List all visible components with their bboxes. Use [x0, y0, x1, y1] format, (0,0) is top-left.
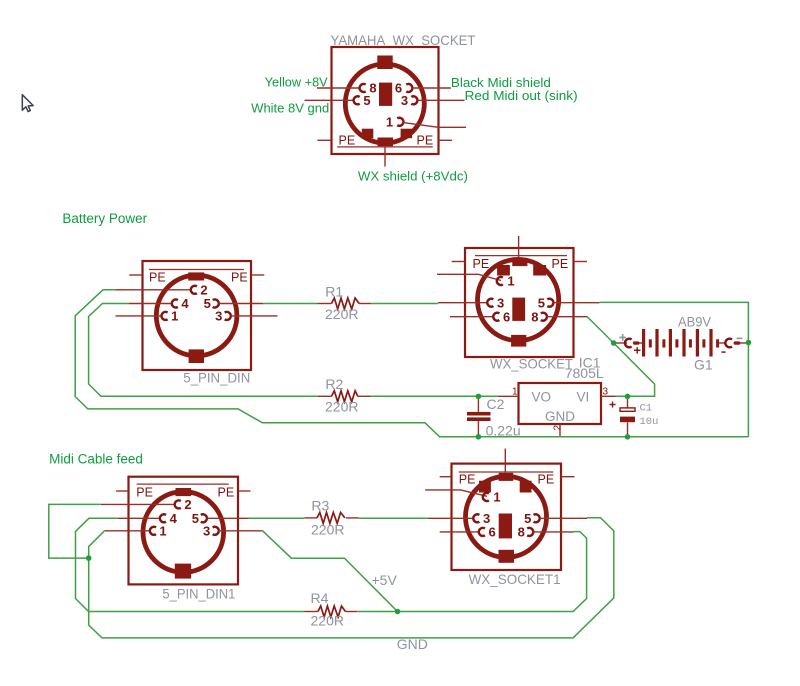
WX_SOCKET PE underline	[475, 255, 567, 257]
5_PIN_DIN pin 4 lead	[129, 303, 172, 305]
5_PIN_DIN1 pin 5 lead	[207, 517, 249, 519]
svg-text:PE: PE	[218, 486, 235, 500]
capacitor C1 top plate (outline)	[620, 408, 635, 411]
svg-text:Red Midi out (sink): Red Midi out (sink)	[465, 89, 578, 103]
WX_SOCKET pin 3 lead	[438, 302, 487, 304]
5_PIN_DIN pin 5 cup	[213, 299, 219, 307]
WX_SOCKET1 pin 5 lead	[540, 517, 588, 519]
WX_SOCKET right notch	[533, 265, 546, 276]
svg-text:GND: GND	[545, 409, 575, 424]
5_PIN_DIN1 pin 1 cup	[150, 527, 156, 535]
junction dot C1 bottom	[625, 434, 631, 440]
capacitor C2 plates	[467, 412, 491, 416]
5_PIN_DIN1 pin 1 lead	[105, 530, 150, 532]
battery G1 right pin bar	[734, 341, 741, 344]
WX_SOCKET1 pin 8 lead	[533, 531, 573, 533]
svg-text:+5V: +5V	[372, 572, 398, 588]
svg-text:220R: 220R	[325, 306, 358, 322]
junction dot DIN1 shield	[86, 555, 92, 561]
wire: DIN pin4 to R2	[89, 304, 318, 397]
svg-text:220R: 220R	[325, 399, 358, 415]
svg-text:WX_SOCKET1: WX_SOCKET1	[469, 571, 561, 587]
battery G1 left pin bar line	[640, 342, 643, 344]
WX_SOCKET1 pin 6 cup	[479, 528, 485, 536]
svg-text:3: 3	[401, 93, 408, 108]
resistor R3 left lead	[305, 517, 317, 519]
svg-text:R3: R3	[311, 498, 329, 514]
resistor R4 left lead	[304, 611, 318, 613]
pin 5 lead	[305, 99, 354, 101]
svg-text:C1: C1	[640, 403, 653, 415]
svg-text:WX_SOCKET: WX_SOCKET	[490, 356, 573, 372]
WX_SOCKET1 ring	[466, 476, 547, 557]
wire: R2 to C2 and IC VO	[371, 395, 499, 397]
5_PIN_DIN1 pin 3 lead	[219, 530, 263, 532]
5_PIN_DIN PE underline	[149, 269, 244, 271]
wire: DIN1 pin2 to junction	[49, 504, 101, 558]
svg-text:3: 3	[603, 387, 609, 398]
wire: battery plus to IC VI and C1	[614, 343, 655, 396]
wire: DIN1 pin5 to R3	[249, 517, 305, 519]
resistor R4 right lead	[345, 611, 357, 613]
svg-text:3: 3	[215, 309, 222, 324]
connector X1 center rect	[379, 83, 392, 106]
svg-text:220R: 220R	[311, 613, 344, 629]
WX_SOCKET pin 8 lead	[547, 316, 587, 318]
PE lead left	[317, 139, 331, 141]
mouse cursor	[22, 95, 33, 112]
5_PIN_DIN1 PE underline	[137, 483, 229, 485]
svg-text:6: 6	[503, 309, 510, 324]
svg-text:C2: C2	[487, 396, 505, 412]
svg-text:1: 1	[171, 309, 178, 324]
svg-text:5: 5	[363, 93, 370, 108]
WX_SOCKET1 pin 1 cup	[483, 493, 489, 501]
wire: DIN pin2 shield to GND rail	[75, 290, 748, 437]
WX_SOCKET1 left notch	[479, 481, 491, 493]
svg-text:5_PIN_DIN1: 5_PIN_DIN1	[162, 586, 235, 602]
svg-text:PE: PE	[459, 472, 476, 486]
svg-text:8: 8	[531, 309, 538, 324]
wire: WX pin5 to battery minus and GND rail	[599, 302, 748, 436]
WX_SOCKET1 bottom key tab	[499, 550, 515, 563]
WX_SOCKET top small tab	[512, 258, 527, 266]
svg-text:5: 5	[524, 511, 531, 526]
WX_SOCKET pin 6 cup	[493, 313, 499, 321]
5_PIN_DIN1 pin 3 cup	[213, 527, 219, 535]
WX_SOCKET pin 5 lead	[553, 302, 599, 304]
battery minus mark red	[721, 351, 725, 353]
svg-text:PE: PE	[552, 257, 569, 271]
svg-text:4: 4	[181, 296, 189, 311]
pin 6 lead	[413, 87, 451, 89]
5_PIN_DIN1 PE lead right	[238, 490, 251, 492]
5_PIN_DIN pin 2 cup	[191, 286, 197, 294]
pin 1 cup	[397, 118, 403, 126]
battery G1 left pin cup	[625, 339, 632, 348]
capacitor C2 top lead	[477, 399, 479, 412]
wire: R4 to +5V junction and WX1 pin8	[357, 532, 586, 612]
svg-text:WX shield (+8Vdc): WX shield (+8Vdc)	[358, 169, 468, 183]
svg-text:5_PIN_DIN: 5_PIN_DIN	[183, 369, 250, 385]
WX_SOCKET pin 6 lead	[450, 316, 493, 318]
5_PIN_DIN pin 3 lead	[231, 315, 278, 317]
svg-text:5: 5	[538, 295, 545, 310]
svg-text:2: 2	[184, 497, 191, 512]
WX_SOCKET1 right notch	[520, 481, 532, 493]
svg-text:Black Midi shield: Black Midi shield	[451, 76, 551, 90]
wire: DIN1 pin1 junction to GND rail and WX1 pin5	[89, 518, 614, 638]
svg-text:3: 3	[497, 295, 504, 310]
svg-text:PE: PE	[417, 133, 434, 147]
svg-text:R1: R1	[325, 283, 343, 299]
5_PIN_DIN1 pin 2 cup	[175, 500, 181, 508]
resistor R4 zigzag	[318, 606, 345, 617]
svg-text:5: 5	[204, 296, 211, 311]
5_PIN_DIN bottom key tab	[189, 349, 204, 363]
WX_SOCKET1 PE underline	[459, 471, 554, 473]
svg-text:PE: PE	[149, 270, 166, 284]
pin 8 cup	[360, 84, 366, 92]
PE lead right	[439, 139, 453, 141]
capacitor C1 bottom lead	[627, 422, 629, 437]
junction dot C2 bottom	[476, 434, 482, 440]
svg-text:AB9V: AB9V	[678, 314, 712, 330]
5_PIN_DIN pin 5 lead	[219, 303, 263, 305]
WX_SOCKET pin 1 lead	[437, 274, 501, 280]
5_PIN_DIN1 pin 2 lead	[101, 503, 175, 505]
capacitor C1 plus mark	[610, 402, 616, 408]
junction dot battery plus	[611, 340, 617, 346]
svg-text:5: 5	[192, 511, 199, 526]
PE underline	[337, 146, 433, 148]
resistor R1 left lead	[317, 303, 331, 305]
svg-text:7805L: 7805L	[565, 365, 604, 381]
resistor R2 right lead	[358, 395, 371, 397]
connector X1 left notch	[362, 129, 374, 139]
svg-text:VO: VO	[532, 390, 552, 405]
WX_SOCKET pin 1 cup	[497, 277, 503, 285]
svg-text:10u: 10u	[640, 416, 659, 428]
5_PIN_DIN top small tab	[188, 272, 204, 280]
resistor R2 zigzag	[332, 391, 358, 402]
wire: R1 to WX pin3	[371, 303, 438, 305]
battery plus mark gray	[619, 334, 626, 341]
svg-text:PE: PE	[231, 270, 248, 284]
WX_SOCKET pin 3 cup	[487, 299, 493, 307]
regulator IC1 body	[519, 383, 602, 424]
5_PIN_DIN1 pin 4 lead	[117, 517, 160, 519]
svg-text:6: 6	[488, 525, 495, 540]
resistor R1 right lead	[359, 303, 371, 305]
connector X1 bottom small tab	[378, 138, 394, 147]
5_PIN_DIN PE lead left	[129, 274, 142, 276]
WX_SOCKET1 pin 8 cup	[527, 528, 533, 536]
svg-text:3: 3	[203, 523, 210, 538]
junction dot C2 top	[476, 394, 482, 400]
svg-text:R4: R4	[311, 590, 329, 606]
IC1 pin 1 lead (VO)	[499, 395, 519, 397]
svg-text:Midi Cable feed: Midi Cable feed	[49, 452, 143, 467]
svg-text:PE: PE	[339, 133, 356, 147]
svg-text:1: 1	[159, 523, 166, 538]
WX_SOCKET left notch	[497, 265, 510, 276]
battery G1 right pin cup	[725, 339, 732, 348]
WX_SOCKET PE lead right	[574, 261, 588, 263]
svg-text:White 8V gnd: White 8V gnd	[251, 102, 329, 116]
5_PIN_DIN pin 2 lead	[116, 289, 191, 291]
battery minus mark gray	[737, 337, 743, 339]
junction dot battery minus	[746, 340, 752, 346]
svg-text:GND: GND	[397, 636, 428, 652]
svg-text:PE: PE	[473, 257, 490, 271]
5_PIN_DIN1 ring	[143, 492, 224, 573]
5_PIN_DIN1 top small tab	[176, 488, 192, 496]
svg-text:1: 1	[493, 490, 500, 505]
connector X1 right notch	[401, 129, 413, 139]
resistor R3 right lead	[346, 517, 359, 519]
capacitor C2 bottom lead	[477, 421, 479, 437]
5_PIN_DIN1 pin 5 cup	[201, 514, 207, 522]
wire: WX pin8 to battery plus	[587, 317, 614, 344]
battery plus mark red	[634, 347, 641, 354]
5_PIN_DIN PE lead right	[251, 274, 264, 276]
resistor R3 zigzag	[317, 512, 345, 523]
WX_SOCKET center rect	[512, 298, 525, 321]
WX_SOCKET1 pin 5 cup	[534, 514, 540, 522]
pin 5 cup	[354, 96, 360, 104]
wire: DIN1 pin4 to R4 and +5V rail	[76, 518, 305, 611]
wire: R3 to WX1 pin3	[359, 517, 428, 519]
svg-text:Battery Power: Battery Power	[62, 211, 147, 226]
battery G1 cells	[642, 329, 719, 357]
connector 5_PIN_DIN body box	[143, 261, 252, 370]
capacitor C1 bottom plate	[620, 417, 635, 423]
svg-text:1: 1	[512, 387, 518, 398]
WX_SOCKET bottom key tab	[511, 335, 526, 347]
WX_SOCKET1 pin 3 cup	[473, 514, 479, 522]
pin 8 lead	[317, 87, 360, 89]
resistor R2 left lead	[318, 395, 332, 397]
svg-text:8: 8	[518, 525, 525, 540]
svg-text:220R: 220R	[311, 522, 344, 538]
WX_SOCKET pin 5 cup	[547, 299, 553, 307]
5_PIN_DIN1 bottom key tab	[175, 564, 191, 579]
svg-text:R2: R2	[325, 376, 343, 392]
5_PIN_DIN1 PE lead left	[116, 490, 128, 492]
svg-text:G1: G1	[694, 357, 713, 373]
svg-text:VI: VI	[577, 390, 590, 405]
shield pin lead (bottom)	[384, 146, 386, 166]
resistor R1 zigzag	[332, 298, 360, 309]
WX_SOCKET1 center rect	[499, 514, 512, 539]
junction dot +5V	[395, 609, 401, 615]
svg-text:YAMAHA_WX_SOCKET: YAMAHA_WX_SOCKET	[331, 32, 476, 48]
svg-text:1: 1	[386, 114, 393, 129]
WX_SOCKET PE lead left	[452, 261, 465, 263]
capacitor C1 top lead	[627, 399, 629, 408]
5_PIN_DIN pin 1 lead	[116, 315, 162, 317]
connector X1 body box	[332, 47, 439, 154]
battery G1 right pin link line	[719, 342, 727, 344]
battery G1 left terminal line	[615, 342, 627, 344]
WX_SOCKET1 pin 3 lead	[428, 517, 473, 519]
svg-text:PE: PE	[136, 486, 153, 500]
svg-text:4: 4	[170, 511, 178, 526]
battery G1 right terminal line	[740, 342, 747, 344]
WX_SOCKET1 PE lead left	[440, 476, 452, 478]
connector WX_SOCKET body box	[465, 248, 574, 357]
svg-text:1: 1	[507, 274, 514, 289]
WX_SOCKET1 top small tab	[499, 473, 514, 481]
svg-text:PE: PE	[538, 472, 555, 486]
wire: DIN1 pin3 to +5V junction	[263, 531, 398, 612]
svg-text:Yellow +8V: Yellow +8V	[265, 76, 329, 90]
connector X1 ring	[345, 64, 424, 143]
svg-text:2: 2	[553, 425, 564, 431]
WX_SOCKET pin 8 cup	[541, 313, 547, 321]
WX_SOCKET1 pin 1 lead	[425, 490, 487, 496]
pin 3 lead	[418, 99, 465, 101]
IC1 pin 2 lead (GND)	[559, 424, 561, 437]
5_PIN_DIN pin 3 cup	[225, 312, 231, 320]
WX_SOCKET1 PE lead right	[561, 476, 575, 478]
pin 1 lead	[403, 123, 466, 128]
connector X1 top key tab	[377, 56, 392, 70]
pin 6 cup	[406, 84, 412, 92]
WX_SOCKET1 pin 6 lead	[440, 531, 479, 533]
WX_SOCKET top shield lead	[518, 236, 520, 258]
5_PIN_DIN pin 4 cup	[172, 299, 178, 307]
WX_SOCKET ring	[477, 259, 558, 340]
junction dot C1 top	[625, 394, 631, 400]
IC1 pin 3 lead (VI)	[601, 395, 616, 397]
wire: DIN pin5 to R1	[263, 303, 317, 305]
5_PIN_DIN ring	[156, 275, 237, 356]
connector 5_PIN_DIN1 body box	[129, 477, 239, 585]
5_PIN_DIN pin 1 cup	[161, 312, 167, 320]
pin 3 cup	[411, 96, 417, 104]
5_PIN_DIN1 pin 4 cup	[160, 514, 166, 522]
WX_SOCKET1 top shield lead	[504, 449, 506, 473]
connector WX_SOCKET1 body box	[452, 464, 562, 570]
battery G1 left pin bar	[633, 341, 640, 344]
